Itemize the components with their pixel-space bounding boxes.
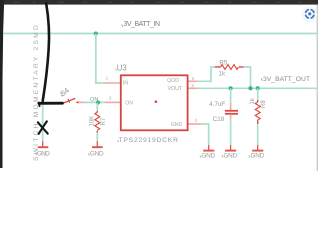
- svg-text:SWITCH MOMENTARY 2SMD: SWITCH MOMENTARY 2SMD: [33, 23, 40, 161]
- svg-text:VOUT: VOUT: [168, 86, 183, 92]
- svg-text:GND: GND: [201, 152, 215, 159]
- origin tick GND S4: [35, 153, 38, 155]
- origin tick GND C18: [221, 155, 224, 157]
- annotation vertical wavy stroke: [43, 4, 49, 102]
- switch actuator tick: [68, 99, 70, 103]
- wire cap branch: [230, 88, 232, 103]
- svg-text:1k: 1k: [219, 70, 226, 77]
- node junction R8 branch: [256, 86, 260, 90]
- origin tick GND R7: [87, 153, 90, 155]
- wire ON net: [84, 101, 106, 103]
- locate icon top right: [301, 7, 317, 23]
- wire IN drop: [96, 34, 105, 84]
- ground U3: [201, 145, 215, 159]
- svg-text:3V_BATT_IN: 3V_BATT_IN: [124, 21, 161, 28]
- node junction ON net: [96, 101, 100, 105]
- ground C18: [223, 145, 237, 159]
- svg-text:TPS22919DCKR: TPS22919DCKR: [119, 137, 179, 144]
- svg-text:IN: IN: [123, 81, 128, 87]
- origin tick U3: [115, 69, 118, 71]
- wire QOD to R5: [198, 67, 215, 81]
- origin tick 3V_BATT_OUT: [260, 78, 263, 80]
- svg-text:ON: ON: [125, 101, 133, 107]
- svg-text:2: 2: [195, 118, 198, 124]
- svg-text:3: 3: [109, 95, 112, 101]
- switch contact arrow: [76, 101, 79, 104]
- svg-text:3V_BATT_OUT: 3V_BATT_OUT: [263, 76, 310, 83]
- svg-text:ON: ON: [90, 97, 98, 103]
- svg-text:S4: S4: [58, 86, 70, 99]
- svg-text:GND: GND: [223, 152, 237, 159]
- top window edge: [0, 0, 318, 5]
- wire 3V_BATT_IN horizontal: [3, 33, 317, 35]
- svg-text:1k: 1k: [250, 97, 256, 104]
- svg-text:6: 6: [192, 83, 195, 89]
- wire VOUT main: [198, 87, 317, 89]
- svg-text:1: 1: [106, 76, 109, 82]
- annotation horizontal stroke: [39, 102, 63, 105]
- ground R7: [90, 141, 104, 157]
- ground R8: [251, 145, 265, 159]
- right border line: [317, 5, 318, 171]
- origin tick GND R8: [248, 155, 251, 157]
- U3 origin mark: [155, 101, 157, 103]
- switch S4 lever: [62, 98, 75, 103]
- op IC U3 pin IN: [105, 82, 121, 84]
- annotation left tick: [38, 103, 41, 106]
- svg-text:R5: R5: [219, 59, 228, 66]
- svg-text:R7: R7: [101, 117, 107, 125]
- capacitor C18: [225, 103, 238, 119]
- pin QOD stub: [188, 80, 198, 82]
- annotation X mark stroke 1: [38, 122, 48, 133]
- svg-text:R8: R8: [261, 100, 267, 108]
- pin GND stub: [188, 123, 201, 125]
- origin tick S4: [61, 94, 64, 96]
- annotation X mark stroke 2: [39, 121, 47, 133]
- resistor R7 10K: [95, 111, 100, 133]
- wire U3 gnd pin to gnd: [201, 124, 209, 145]
- svg-text:GND: GND: [171, 122, 183, 128]
- wire R8 branch: [257, 88, 259, 100]
- svg-text:U3: U3: [117, 63, 127, 72]
- origin tick TPS value: [117, 140, 120, 142]
- origin tick GND U3: [199, 155, 202, 157]
- node junction on battery-in wire: [94, 31, 98, 35]
- wire R8 to gnd: [257, 124, 259, 145]
- wire R5 to VOUT net: [244, 67, 251, 88]
- svg-text:10K: 10K: [90, 116, 96, 127]
- svg-text:GND: GND: [251, 152, 265, 159]
- left window edge: [0, 0, 4, 168]
- wire ON to R7: [96, 103, 98, 111]
- pin VOUT stub: [188, 87, 198, 89]
- svg-text:QOD: QOD: [167, 78, 179, 84]
- pin ON stub: [106, 101, 121, 103]
- wire R7 to gnd: [96, 133, 98, 142]
- IC U3 body: [121, 75, 188, 130]
- ground S4: [37, 141, 50, 157]
- node junction R5 branch: [248, 86, 252, 90]
- wire cap to gnd: [230, 119, 232, 146]
- origin tick 3V_BATT_IN: [121, 25, 124, 27]
- resistor R5: [215, 65, 244, 70]
- resistor R8: [255, 100, 260, 124]
- svg-text:5: 5: [192, 76, 195, 82]
- switch right pin: [78, 101, 84, 103]
- svg-text:4.7uF: 4.7uF: [209, 101, 225, 108]
- node junction cap branch: [229, 86, 233, 90]
- svg-text:C18: C18: [213, 116, 225, 123]
- svg-text:GND: GND: [90, 150, 104, 157]
- wire switch to gnd: [42, 105, 44, 141]
